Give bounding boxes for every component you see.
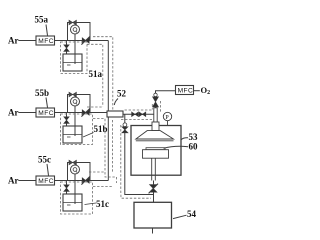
dashed rail right of manifold <box>93 37 113 111</box>
svg-text:60: 60 <box>189 142 199 152</box>
bubbler vessel 51b <box>63 126 82 143</box>
leader 55c <box>47 164 49 176</box>
wire dip tube (b) <box>74 106 76 136</box>
dashed enclosure 51b <box>61 114 93 145</box>
showerhead 60 top <box>136 131 174 139</box>
label 55b <box>35 88 49 98</box>
wire Ar to MFC (b) <box>19 112 37 114</box>
manifold box 52 <box>107 111 123 117</box>
wire bypass loop (c) <box>68 163 91 181</box>
pump 54 <box>134 202 172 228</box>
label O2 <box>201 85 211 96</box>
valve top bowtie (c) <box>69 160 76 165</box>
wire dip tube (a) <box>74 34 76 64</box>
label 55a <box>35 15 49 25</box>
leader 55b <box>46 98 48 108</box>
gauge circle (b) <box>71 97 80 106</box>
label 54 <box>187 209 197 219</box>
valve inlet X (a) <box>66 41 68 55</box>
valve inline 2 <box>139 112 146 117</box>
MFC 56b box <box>36 108 55 117</box>
susceptor <box>143 150 169 159</box>
wire O2 to MFC <box>194 90 200 92</box>
valve slash (a) <box>82 38 89 44</box>
dashed flank O2 line <box>152 101 160 113</box>
wire Ar to MFC (c) <box>19 180 37 182</box>
leader 53 <box>181 138 188 140</box>
label 51a <box>89 69 103 79</box>
dashed flank unit c lower <box>93 186 113 188</box>
gauge circle (c) <box>71 165 80 174</box>
wire manifold to chamber inlet <box>123 113 154 115</box>
MFC O2 box <box>176 86 194 95</box>
wire circle link (c) <box>74 163 76 166</box>
chamber 53 <box>131 126 181 176</box>
wire chamber to valve <box>153 181 155 185</box>
wire circle link (a) <box>74 23 76 26</box>
wafer <box>146 148 165 150</box>
dashed flank unit c upper <box>89 171 104 173</box>
valve inline 1 <box>132 112 139 117</box>
valve exhaust slash <box>150 185 158 193</box>
dashed flank feed lower <box>121 119 152 121</box>
dashed rail below box right <box>112 120 114 172</box>
wire MFC output main line (c) <box>55 180 109 182</box>
valve slash (c) <box>82 178 89 184</box>
dashed flank bypass <box>121 125 151 198</box>
wire circle link (b) <box>74 95 76 98</box>
svg-text:MFC: MFC <box>178 88 194 95</box>
label 60 <box>189 142 199 152</box>
wire Ar to MFC (a) <box>19 40 37 42</box>
svg-text:MFC: MFC <box>38 38 54 45</box>
valve inlet X (c) <box>66 181 68 195</box>
wire MFC output main line (a) <box>55 40 109 42</box>
dashed flank feed upper <box>125 109 153 111</box>
bubbler vessel 51a <box>63 54 82 71</box>
leader 51c <box>85 203 97 205</box>
wire vent bypass <box>125 114 154 194</box>
leader 60 <box>164 146 189 148</box>
wire bypass loop (b) <box>68 95 91 113</box>
label 55c <box>38 155 51 165</box>
leader 52 <box>114 99 118 106</box>
node Ar (a) <box>8 36 19 46</box>
svg-text:MFC: MFC <box>38 178 54 185</box>
svg-text:51a: 51a <box>89 69 103 79</box>
leader 54 <box>173 215 187 218</box>
leader 51b <box>83 133 94 138</box>
label 51b <box>94 124 108 134</box>
valve O2 (circle + X) <box>154 93 157 96</box>
MFC 56a box <box>36 36 55 45</box>
valve vent (circle + X) <box>123 123 127 127</box>
label 53 <box>189 132 199 142</box>
svg-text:52: 52 <box>117 89 127 99</box>
wire valve to pump <box>153 192 155 202</box>
svg-text:51c: 51c <box>96 199 109 209</box>
bubbler vessel 51c <box>63 194 82 211</box>
svg-text:Ar: Ar <box>8 36 19 46</box>
valve slash (b) <box>82 110 89 116</box>
valve top bowtie (a) <box>69 20 76 25</box>
svg-text:53: 53 <box>189 132 199 142</box>
inlet block <box>152 122 159 131</box>
label 51c <box>96 199 109 209</box>
svg-text:Ar: Ar <box>8 176 19 186</box>
wire MFC output main line (b) <box>55 112 109 114</box>
svg-text:MFC: MFC <box>38 110 54 117</box>
gauge P <box>163 112 171 120</box>
svg-text:Ar: Ar <box>8 108 19 118</box>
svg-text:51b: 51b <box>94 124 108 134</box>
svg-text:54: 54 <box>187 209 197 219</box>
label 52 <box>117 89 127 99</box>
node Ar (c) <box>8 176 19 186</box>
wire MFC O2 to inlet <box>156 91 176 94</box>
wire pump outlet <box>152 228 154 234</box>
wire dip tube (c) <box>74 174 76 204</box>
wire manifold vertical <box>107 41 109 181</box>
svg-text:55c: 55c <box>38 155 51 165</box>
svg-text:55b: 55b <box>35 88 49 98</box>
inlet pipe <box>154 108 157 122</box>
dashed enclosure 51a <box>61 42 88 74</box>
node Ar (b) <box>8 108 19 118</box>
dashed flank unit b upper <box>87 106 103 108</box>
dashed enclosure 51c <box>61 182 93 214</box>
svg-text:55a: 55a <box>35 15 49 25</box>
gauge circle (a) <box>71 25 80 34</box>
dashed rail left of manifold <box>87 44 103 106</box>
leader 55a <box>46 25 48 36</box>
MFC 56c box <box>36 176 55 185</box>
valve inlet X (b) <box>66 113 68 127</box>
wire susceptor stem <box>152 158 156 180</box>
dashed flank unit b lower <box>93 119 117 184</box>
wire bypass loop (a) <box>68 23 91 41</box>
valve top bowtie (b) <box>69 92 76 97</box>
